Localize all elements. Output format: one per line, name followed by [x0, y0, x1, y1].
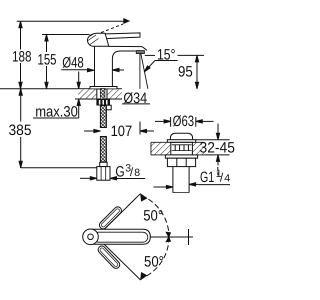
svg-text:155: 155	[38, 51, 57, 68]
svg-text:max.30: max.30	[35, 103, 78, 120]
svg-text:15°: 15°	[157, 47, 176, 64]
svg-text:G: G	[115, 164, 124, 181]
svg-text:4: 4	[224, 173, 230, 185]
svg-text:32-45: 32-45	[200, 139, 235, 156]
svg-text:107: 107	[111, 123, 133, 140]
svg-text:50°: 50°	[143, 207, 163, 224]
svg-text:95: 95	[178, 64, 193, 81]
svg-text:385: 385	[9, 122, 32, 139]
svg-text:Ø63: Ø63	[173, 113, 195, 130]
svg-text:8: 8	[134, 167, 140, 179]
svg-text:50°: 50°	[144, 254, 164, 271]
svg-text:G1: G1	[200, 169, 214, 186]
svg-text:188: 188	[12, 48, 32, 65]
svg-text:Ø48: Ø48	[62, 54, 84, 71]
